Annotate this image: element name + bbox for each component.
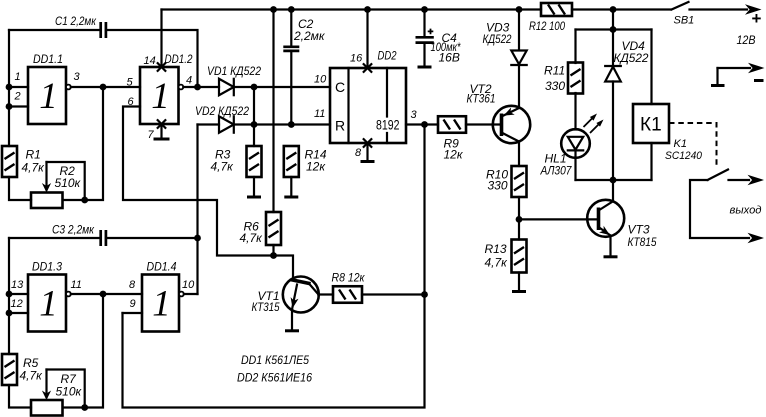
svg-text:3: 3 <box>74 71 81 83</box>
svg-text:КД522: КД522 <box>614 51 649 65</box>
wire: vertical DD1.2/DD1.4 inter-stage line (VD2 anode, C3 right, DD1.4 out) <box>196 125 198 295</box>
arrow: +12V supply terminal <box>745 4 762 14</box>
svg-text:4,7к: 4,7к <box>22 161 46 175</box>
node: pin3 / R9 / feedback junction <box>421 121 428 128</box>
wire: DD1.2 out to VD1 anode <box>183 86 219 88</box>
svg-text:R12 100: R12 100 <box>529 19 565 33</box>
wire: left rail of second multivibrator (C3 left / pins 13,12 / R5) <box>9 238 31 408</box>
svg-text:12В: 12В <box>737 33 756 47</box>
wire: DD2 pin 8 to ground <box>366 143 368 161</box>
svg-text:DD1.2: DD1.2 <box>165 52 193 66</box>
wire: R10 bottom to base node of VT3 <box>518 197 520 219</box>
output bubble DD1.4 pin 10 <box>179 292 184 297</box>
wire: pin 2 stub <box>9 105 28 107</box>
arrow: minus supply terminal <box>748 63 765 73</box>
svg-text:1: 1 <box>39 76 58 117</box>
node: R11/VD4/K1 branch on top rail <box>610 6 617 13</box>
node: R6 branch on top rail <box>270 6 277 13</box>
svg-text:16В: 16В <box>439 51 460 65</box>
pin 7 power cross mark <box>157 119 166 128</box>
svg-text:8: 8 <box>129 279 136 291</box>
node: DD1.2 output junction (C1 right) <box>194 84 201 91</box>
node: DD1.3 input junction pin13 <box>6 291 13 298</box>
wire: K1 coil top lead <box>650 30 652 105</box>
svg-text:510к: 510к <box>55 176 82 190</box>
svg-text:8192: 8192 <box>376 118 400 133</box>
wire: junction to R9 <box>425 123 439 125</box>
svg-text:3: 3 <box>411 109 418 121</box>
svg-text:VD2 КД522: VD2 КД522 <box>195 104 249 118</box>
wire: base wire to VT3 <box>519 218 599 220</box>
R2 wiper arrow <box>42 162 51 193</box>
HL1 light emission arrows <box>584 114 598 128</box>
svg-text:1: 1 <box>15 71 21 83</box>
resistor R13 4,7к <box>512 240 527 273</box>
ground below DD1.2 pin 7 <box>154 138 170 141</box>
wire: K1 coil bottom lead <box>650 143 652 180</box>
svg-text:16: 16 <box>350 53 363 65</box>
wire: VT3 emitter to ground <box>609 236 611 257</box>
svg-text:КД522: КД522 <box>483 32 512 46</box>
svg-text:11: 11 <box>314 108 325 120</box>
svg-text:10: 10 <box>314 74 327 86</box>
ground below R3 <box>247 196 261 199</box>
wire: R3 bottom lead to ground <box>253 177 255 196</box>
wire: VT2 collector to R10 <box>518 142 520 167</box>
wire: R2 wiper loop to rail <box>47 162 85 200</box>
wire: pin 13 stub <box>9 293 28 295</box>
node: R7 wiper junction on rail <box>81 404 88 411</box>
ground below VT1 emitter <box>285 329 299 332</box>
wire: DD1.2 pin 14 from +rail <box>160 10 162 68</box>
svg-text:4,7к: 4,7к <box>485 256 509 270</box>
R7 wiper arrow <box>42 370 51 401</box>
label − polarity <box>754 79 764 82</box>
wire: feedback DD1.1 output down to R1/R2 rail <box>63 87 103 200</box>
diode VD4 КД522 (flyback, cathode up) <box>605 66 621 180</box>
diode VD2 КД522 <box>219 116 234 132</box>
op-gate DD1.4 (К561ЛЕ5 element 4) <box>142 275 179 332</box>
svg-text:C: C <box>335 79 345 95</box>
wire: DD1.1 out to DD1.2 inputs pin 5 <box>71 86 140 88</box>
wire: R6 junction to VT1 base <box>274 256 294 279</box>
resistor R11 330 <box>568 63 583 94</box>
wire: left rail of first multivibrator (C1 left / pins 1,2 / R1) <box>9 30 31 200</box>
svg-text:R13: R13 <box>485 242 507 256</box>
svg-text:1: 1 <box>151 76 170 117</box>
capacitor C2 2,2мк <box>283 10 299 125</box>
transistor VT3 КТ815 (NPN) <box>587 180 624 237</box>
wire: R9 to VT2 base <box>466 123 502 125</box>
wire: R14 bottom lead to ground <box>290 177 292 196</box>
resistor R9 12к <box>438 116 466 133</box>
svg-text:4,7к: 4,7к <box>240 231 264 245</box>
svg-text:5: 5 <box>127 77 134 89</box>
wire: DD1.3 out to DD1.4 input pin 8 <box>71 293 142 295</box>
capacitor C1 <box>9 22 198 84</box>
resistor R8 12к <box>333 286 362 303</box>
svg-text:DD1.1: DD1.1 <box>33 52 63 66</box>
wire: feedback DD1.3 output down to R5/R7 rail <box>63 294 103 408</box>
output bubble DD1.2 pin 4 <box>179 85 184 90</box>
op-gate DD1.1 (К561ЛЕ5 element 1) <box>28 67 66 124</box>
svg-text:АЛ307: АЛ307 <box>540 164 573 178</box>
svg-text:4,7к: 4,7к <box>20 369 44 383</box>
resistor R14 12к <box>284 146 299 177</box>
svg-text:C1 2,2мк: C1 2,2мк <box>55 14 97 28</box>
wire: R6 bottom lead <box>272 245 274 256</box>
wire: R3 top lead <box>253 125 255 147</box>
svg-text:КТ361: КТ361 <box>467 92 496 106</box>
output bubble DD1.3 pin 11 <box>66 292 71 297</box>
wire: VD2 cathode row to DD2 pin R <box>234 123 330 125</box>
wire: VD1 cathode to DD2 pin C <box>234 86 330 88</box>
svg-text:14: 14 <box>144 55 156 67</box>
svg-text:13: 13 <box>11 279 24 291</box>
svg-text:12к: 12к <box>306 160 326 174</box>
wire: VD4 anode lead <box>612 30 614 67</box>
wire: R7 wiper loop to rail <box>47 370 85 408</box>
svg-text:C3 2,2мк: C3 2,2мк <box>52 223 95 237</box>
resistor R1 4,7к <box>2 146 17 177</box>
ground below C4 <box>418 66 432 69</box>
resistor R5 4,7к <box>2 354 17 385</box>
wire: DD1.2 pin 6 jog down-right to R6/VT1 base net <box>123 107 274 256</box>
svg-text:2,2мк: 2,2мк <box>293 29 326 43</box>
diode VD1 КД522 <box>219 79 234 95</box>
node: C4 branch on top rail <box>421 6 428 13</box>
resistor R3 4,7к <box>247 146 262 177</box>
svg-text:DD1.3: DD1.3 <box>32 260 62 274</box>
svg-text:8: 8 <box>355 147 362 159</box>
svg-text:+: + <box>752 9 762 28</box>
potentiometer R2 510к body <box>31 193 63 209</box>
LED HL1 АЛ307 <box>561 129 590 180</box>
wire: feedback line pin3/R9 down to R8 and bottom rail <box>123 125 425 408</box>
relay coil K1 <box>633 104 669 143</box>
node: DD1.3 output junction <box>100 291 107 298</box>
svg-text:1: 1 <box>39 284 58 325</box>
wire: pin 1 stub <box>9 86 28 88</box>
svg-text:7: 7 <box>148 129 155 141</box>
wire: DD2 pin 3 to R9/feedback node <box>406 123 425 125</box>
svg-text:К1: К1 <box>640 115 662 136</box>
node: DD1.1 input junction pin2 <box>6 103 13 110</box>
svg-text:4: 4 <box>186 75 192 87</box>
node: R8 junction on feedback line <box>421 291 428 298</box>
wire: VT1 emitter to ground <box>291 310 293 331</box>
svg-text:R1: R1 <box>26 148 41 162</box>
resistor R12 100 (in +rail) <box>541 3 572 16</box>
svg-text:12: 12 <box>11 298 23 310</box>
svg-text:9: 9 <box>130 298 136 310</box>
svg-text:2: 2 <box>14 91 21 103</box>
resistor R10 330 <box>512 166 527 197</box>
node: C2 / R14 junction <box>288 121 295 128</box>
node: VD1/VD2 cathode tie upper <box>251 84 258 91</box>
transistor VT1 КТ315 (NPN, base on top) <box>283 277 319 313</box>
svg-text:R11: R11 <box>544 64 565 78</box>
pin 14 power cross mark <box>157 62 166 71</box>
svg-text:VD1 КД522: VD1 КД522 <box>207 64 261 78</box>
node: VD4 top junction <box>610 26 617 33</box>
dashed mechanical link from K1 to contact <box>669 123 717 168</box>
diode VD3 КД522 (pointing down) <box>511 51 526 66</box>
svg-text:12к: 12к <box>444 148 464 162</box>
wire: R6 from top rail <box>272 10 274 213</box>
wire: pin 12 stub <box>9 312 28 314</box>
pin 8 power cross mark <box>363 138 372 147</box>
op-gate DD1.3 (К561ЛЕ5 element 3) <box>28 275 66 332</box>
ground below VT3 emitter <box>604 255 618 258</box>
node: R2 wiper junction on rail <box>81 197 88 204</box>
VT2 emitter arrow (into base) <box>504 107 515 115</box>
arrow: output terminal lower <box>748 233 765 243</box>
wire: DD2 pin 16 from +rail <box>366 10 368 69</box>
node: R10/R13/VT3-base junction <box>516 216 523 223</box>
wire: DD1.4 pin 9 to bottom rail <box>123 312 143 314</box>
svg-text:330: 330 <box>488 179 508 193</box>
wire: R11 top lead <box>574 30 576 64</box>
output bubble DD1.1 pin 3 <box>66 85 71 90</box>
wire: DD1.4 out to inter-stage line <box>184 293 198 295</box>
wire: R8 to feedback line <box>362 293 425 295</box>
wire: DD1.2 pin 7 to ground <box>160 124 162 139</box>
VT3 emitter arrow <box>599 226 610 235</box>
capacitor C3 <box>9 230 198 246</box>
svg-text:R: R <box>335 118 345 134</box>
svg-text:DD2 К561ИЕ16: DD2 К561ИЕ16 <box>237 371 312 385</box>
node: C3 right junction <box>194 235 201 242</box>
node: DD1.3 input junction pin12 <box>6 310 13 317</box>
capacitor C4 100мк (electrolytic) <box>416 10 434 67</box>
wire: +12V top rail <box>162 8 748 10</box>
wire: cathode tie vertical <box>253 87 255 125</box>
svg-text:КТ815: КТ815 <box>628 235 657 249</box>
arrow: output terminal upper <box>748 175 765 185</box>
svg-text:330: 330 <box>545 79 565 93</box>
svg-text:R8 12к: R8 12к <box>332 271 366 285</box>
node: DD1.1 input junction pin1 <box>6 84 13 91</box>
node: C2 branch on top rail <box>288 6 295 13</box>
transistor VT2 КТ361 (PNP) <box>493 106 530 143</box>
svg-text:SB1: SB1 <box>674 15 695 27</box>
wire: HL1 / VD4 / K1 / VT3 collector tie <box>576 179 652 181</box>
svg-text:выход: выход <box>730 205 762 217</box>
svg-text:K1: K1 <box>674 138 687 150</box>
counter DD2 К561ИЕ16 box <box>330 68 406 143</box>
node: DD2 pin16 branch on top rail <box>364 6 371 13</box>
op-gate DD1.2 (К561ЛЕ5 element 2) <box>140 67 179 124</box>
node: DD1.1 output junction <box>100 84 107 91</box>
resistor R6 4,7к <box>266 212 281 245</box>
wire: R11 to HL1 <box>574 93 576 130</box>
svg-text:DD2: DD2 <box>378 49 397 63</box>
svg-text:10: 10 <box>182 279 195 291</box>
svg-text:DD1.4: DD1.4 <box>147 260 177 274</box>
svg-text:DD1 К561ЛЕ5: DD1 К561ЛЕ5 <box>241 353 309 367</box>
ground below DD2 pin 8 <box>361 160 375 163</box>
svg-text:SC1240: SC1240 <box>665 150 703 162</box>
node: R6 / pin6 / VT1 base junction <box>270 252 277 259</box>
wire: VD3 cathode to VT2 emitter <box>518 65 520 108</box>
minus supply terminal stub <box>711 68 750 86</box>
wire: R13 bottom lead to ground <box>518 273 520 292</box>
wire: VT1 collector to R8 <box>318 293 333 295</box>
wire: VD2 anode from DD1.4 output line <box>198 123 220 125</box>
svg-text:11: 11 <box>71 279 82 291</box>
wire: R13 top lead <box>518 219 520 239</box>
svg-text:КТ315: КТ315 <box>252 300 280 314</box>
wire: branch from rail to R11/VD4/K1 <box>576 10 652 30</box>
ground below R14 <box>284 196 298 199</box>
node: VT3 collector junction <box>610 177 617 184</box>
switch SB1 lever <box>672 2 689 10</box>
svg-text:1: 1 <box>152 284 171 325</box>
potentiometer R7 510к body <box>31 400 63 416</box>
svg-text:4,7к: 4,7к <box>211 160 235 174</box>
svg-text:510к: 510к <box>56 385 83 399</box>
ground below R13 <box>512 290 526 293</box>
pin 16 power cross mark <box>363 63 372 72</box>
wire: VD3 from top rail <box>518 10 520 51</box>
relay contact K1.1 and output terminals <box>690 170 749 239</box>
node: VD1/VD2 cathode tie lower <box>251 121 258 128</box>
VT1 emitter arrow <box>291 297 299 308</box>
node: VD3 branch on top rail <box>516 6 523 13</box>
